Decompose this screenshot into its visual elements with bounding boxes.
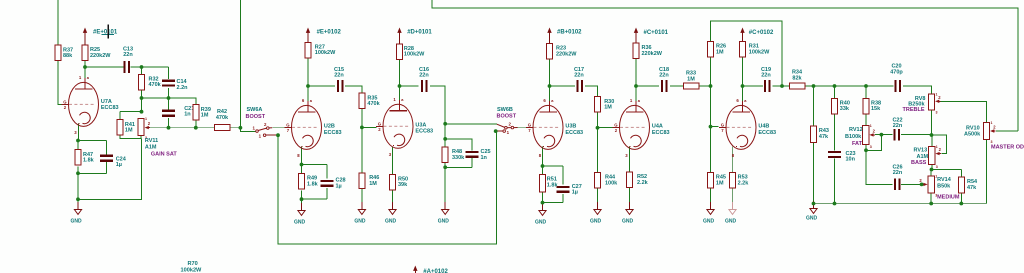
wire R54 pins — [960, 170, 962, 178]
svg-text:GND: GND — [438, 218, 450, 224]
svg-text:MEDIUM: MEDIUM — [937, 195, 960, 201]
capacitor C17 — [574, 67, 584, 92]
wire U3A plate column — [399, 60, 401, 97]
resistor R33 — [684, 71, 700, 90]
power flag #E+0102 — [306, 28, 342, 43]
wire R48/C25 bottom link — [471, 158, 473, 167]
svg-text:GND: GND — [385, 218, 397, 224]
resistor R40 — [832, 98, 850, 114]
ground GND1 — [71, 202, 83, 224]
wire U3B cathode loop — [543, 165, 564, 167]
capacitor C26 — [892, 164, 902, 190]
power flag #A+0102 — [413, 266, 448, 273]
svg-text:U4A: U4A — [652, 124, 663, 130]
svg-text:220k2W: 220k2W — [90, 53, 111, 59]
svg-text:100k2W: 100k2W — [749, 49, 770, 55]
svg-text:ECC83: ECC83 — [101, 105, 119, 111]
wire grid junction down to R44 — [597, 128, 599, 173]
svg-text:2.2k: 2.2k — [738, 180, 750, 186]
wire cathode loop bottom — [106, 162, 108, 174]
svg-text:ECC83: ECC83 — [758, 130, 776, 136]
resistor R34 — [790, 70, 806, 90]
resistor R43 — [811, 126, 830, 143]
svg-text:1.8k: 1.8k — [83, 158, 95, 164]
wire U2B cathode — [301, 147, 303, 165]
switch SW6B — [497, 107, 518, 135]
power flag #C+0101 — [634, 28, 669, 44]
wire C26 right to medium wiper node — [901, 183, 922, 185]
svg-text:1µ: 1µ — [336, 183, 342, 189]
wire plate row U2B to C15 — [308, 85, 335, 87]
svg-text:ECC83: ECC83 — [565, 130, 583, 136]
svg-text:10n: 10n — [846, 157, 856, 163]
resistor R30 — [595, 97, 615, 113]
svg-text:1M: 1M — [125, 128, 133, 134]
wire U3B cathode — [542, 147, 544, 167]
svg-text:U7A: U7A — [101, 99, 112, 105]
svg-text:1M: 1M — [687, 76, 695, 82]
svg-text:470k: 470k — [216, 115, 229, 121]
wire R33 to U4B grid node — [698, 85, 710, 87]
wire grid node down to U4B grid and R45 — [710, 86, 712, 173]
svg-text:47k: 47k — [967, 185, 977, 191]
wire R43 column — [813, 86, 815, 126]
triode U3A — [376, 95, 433, 157]
wire U2B cathode to GND — [301, 199, 303, 210]
wire U4A plate column — [635, 58, 637, 97]
svg-text:GAIN SAT: GAIN SAT — [151, 151, 178, 157]
svg-text:470p: 470p — [890, 69, 903, 75]
resistor R53 — [730, 173, 750, 189]
wire C21 bottom pin — [168, 118, 170, 128]
wire RV12 wiper to C22 node — [875, 134, 892, 136]
wire grid junction down to R46 — [361, 127, 363, 173]
svg-text:1M: 1M — [716, 180, 724, 186]
triode U3B — [526, 96, 583, 158]
resistor R36 — [633, 43, 663, 59]
bottom rail of tone stack — [814, 203, 987, 205]
svg-text:1n: 1n — [481, 155, 488, 161]
wire R26 top rail over U4B — [711, 21, 783, 86]
wire U4A cathode to R52 — [629, 147, 631, 173]
svg-text:100k2W: 100k2W — [404, 52, 425, 58]
wire C16 right to corner down to SW6B node — [430, 86, 445, 124]
capacitor C24 — [100, 155, 127, 168]
svg-text:1M: 1M — [201, 113, 209, 119]
junction SW6B loop — [494, 129, 498, 133]
wire C22 right to bass node — [901, 134, 932, 136]
wire C18 to R33 — [670, 85, 684, 87]
svg-text:22n: 22n — [893, 170, 903, 176]
resistor R26 — [708, 42, 727, 58]
ground GND8 — [622, 202, 634, 224]
svg-text:2.2k: 2.2k — [637, 180, 649, 186]
potentiometer RV11 — [138, 117, 178, 157]
wire pot bottom node down to C26 corner — [866, 150, 893, 184]
wire plate row U3B to C17 — [550, 85, 576, 87]
svg-text:1: 1 — [870, 124, 872, 128]
svg-text:#B+0102: #B+0102 — [557, 30, 582, 36]
wire RV13 bottom to RV14/R54 node — [931, 165, 933, 170]
floating text R70 — [181, 261, 203, 273]
wire R42 to SW6A junction (highlighted) — [230, 127, 241, 129]
wire C14 bottom / C21 top column — [168, 88, 170, 110]
wire R44 to GND — [597, 188, 599, 209]
svg-text:1n: 1n — [184, 112, 191, 118]
svg-text:3: 3 — [870, 145, 872, 149]
svg-text:82k: 82k — [792, 75, 802, 81]
svg-text:100k2W: 100k2W — [181, 268, 203, 273]
wire U3B plate column — [549, 58, 551, 97]
svg-text:3: 3 — [936, 111, 938, 115]
wire C23 bottom to bottom rail — [834, 158, 836, 203]
svg-text:3: 3 — [936, 165, 938, 169]
svg-text:220k2W: 220k2W — [642, 51, 663, 57]
svg-text:RV12: RV12 — [849, 127, 863, 133]
svg-text:47k: 47k — [819, 134, 829, 140]
resistor R48 — [442, 147, 465, 163]
svg-text:ECC83: ECC83 — [324, 130, 342, 136]
wire C17 right to R30 corner — [585, 86, 598, 97]
svg-text:RV14: RV14 — [937, 177, 952, 183]
wire U7A cathode — [78, 124, 80, 141]
svg-text:2.2n: 2.2n — [177, 85, 189, 91]
svg-text:#D+0101: #D+0101 — [407, 29, 432, 35]
svg-text:SW6B: SW6B — [497, 107, 513, 113]
wire input to R37 from top edge — [57, 0, 59, 45]
capacitor C27 — [557, 184, 582, 196]
wire plate row U7A: R25/plate/C13 — [84, 61, 86, 74]
svg-text:U2B: U2B — [324, 124, 335, 130]
svg-text:22n: 22n — [334, 73, 344, 79]
svg-text:1.8k: 1.8k — [307, 181, 319, 187]
wire SW6B node down to R48/C25 — [444, 124, 446, 147]
potentiometer RV13 — [911, 145, 942, 169]
ground GND5 — [385, 202, 397, 224]
svg-text:22n: 22n — [893, 123, 903, 129]
svg-text:#C+0102: #C+0102 — [749, 30, 774, 36]
potentiometer RV10 — [964, 121, 996, 144]
potentiometer RV8 — [903, 93, 942, 115]
svg-text:GND: GND — [294, 219, 306, 225]
svg-text:B50k: B50k — [937, 183, 951, 189]
boost bus loop wire SW6A-SW6B — [278, 131, 497, 244]
triode U4A — [613, 96, 670, 158]
resistor R41 — [117, 120, 135, 136]
svg-text:RV11: RV11 — [145, 138, 158, 144]
resistor R31 — [740, 42, 771, 58]
wire R38 column to RV12 — [865, 86, 867, 98]
wire R40 column to C23 — [834, 86, 836, 98]
resistor R28 — [397, 44, 426, 60]
wire RV8 wiper to RV10 top — [941, 102, 987, 123]
wire grid junction to U4A grid — [598, 126, 614, 128]
capacitor C19 — [761, 67, 771, 92]
svg-text:A1M: A1M — [917, 154, 929, 160]
capacitor C13 — [123, 47, 133, 73]
svg-text:1: 1 — [936, 93, 938, 97]
wire bass node to RV13 and wiper loop — [932, 135, 947, 154]
svg-text:22n: 22n — [659, 73, 669, 79]
resistor R37 — [55, 45, 73, 61]
svg-text:1µ: 1µ — [572, 190, 578, 196]
power flag #E+0101 — [83, 28, 118, 45]
svg-text:100k2W: 100k2W — [315, 50, 336, 56]
svg-text:B100k: B100k — [845, 134, 862, 140]
svg-text:22n: 22n — [419, 73, 429, 79]
wire U2B plate column — [307, 58, 309, 96]
svg-text:GND: GND — [590, 218, 602, 224]
wire RV14 top pin — [930, 170, 932, 177]
svg-text:FAT: FAT — [852, 141, 863, 147]
svg-text:1: 1 — [936, 145, 938, 149]
capacitor C16 — [419, 67, 429, 92]
wire R32 pins — [141, 67, 143, 75]
ground GND11 — [806, 201, 818, 222]
svg-text:GND: GND — [622, 218, 634, 224]
wire R50 to GND — [392, 190, 394, 209]
ground GND3 — [294, 203, 306, 225]
wire R46 bottom to GND — [361, 189, 363, 209]
wire boost input from top edge to SW6A junction — [239, 0, 241, 128]
wire cathode loop R47/C24 top — [78, 140, 107, 142]
svg-text:1M: 1M — [604, 105, 612, 111]
svg-text:330k: 330k — [452, 155, 465, 161]
svg-text:A500k: A500k — [964, 132, 981, 138]
svg-text:GND: GND — [725, 218, 737, 224]
wire C20 to treble pot corner — [903, 86, 931, 94]
svg-text:1M: 1M — [369, 181, 377, 187]
resistor R39 — [193, 105, 211, 121]
svg-text:GND: GND — [535, 219, 547, 225]
wire RV11/R41 top feed — [141, 98, 143, 112]
wire C13 to R32 junction and to C14 corner — [131, 66, 169, 68]
wire R48/C25 top link — [445, 139, 472, 151]
wire R41 pins — [119, 112, 121, 120]
wire RV11 wiper row to R42 (highlighted) — [150, 127, 214, 129]
capacitor C15 — [334, 67, 344, 92]
capacitor C21 — [162, 106, 194, 118]
wire R30 bottom to U4A grid junction — [597, 112, 599, 128]
wire cathode chain to GND1 — [77, 173, 79, 209]
svg-text:22n: 22n — [761, 73, 771, 79]
svg-text:GND: GND — [71, 218, 83, 224]
svg-text:MASTER OD: MASTER OD — [991, 144, 1024, 150]
resistor R50 — [390, 174, 409, 190]
resistor R54 — [958, 177, 978, 193]
power flag #B+0102 — [547, 28, 582, 44]
svg-text:470k: 470k — [367, 101, 380, 107]
wire plate row U3A to C16 — [400, 85, 419, 87]
wire R37 bottom to U7A grid — [58, 61, 62, 105]
resistor R47 — [75, 150, 95, 166]
wire R35 bottom to grid junction — [361, 109, 363, 128]
ground GND7 — [535, 203, 547, 225]
wire R45 to GND — [710, 188, 712, 209]
svg-text:SW6A: SW6A — [247, 107, 263, 113]
wire U2B cathode loop — [302, 164, 328, 166]
resistor R45 — [708, 173, 726, 189]
resistor R38 — [863, 98, 881, 114]
svg-text:1M: 1M — [716, 49, 724, 55]
resistor R52 — [627, 172, 649, 188]
wire R34 right to tone stack — [805, 85, 893, 87]
svg-text:BOOST: BOOST — [497, 114, 517, 120]
power flag #C+0102 — [740, 28, 774, 42]
wire R39 bottom pin — [195, 120, 197, 128]
capacitor C28 — [321, 178, 346, 190]
svg-text:ECC83: ECC83 — [415, 129, 433, 135]
svg-text:#C+0101: #C+0101 — [644, 30, 669, 36]
switch SW6A — [240, 107, 277, 139]
ground GND4 — [438, 202, 450, 224]
svg-text:15k: 15k — [871, 106, 881, 112]
svg-text:ECC83: ECC83 — [652, 130, 670, 136]
wire R52 to GND — [629, 188, 631, 209]
triode U7A — [62, 73, 119, 135]
svg-text:A1M: A1M — [145, 145, 157, 151]
resistor R42 — [214, 109, 230, 131]
triode U4B — [719, 96, 776, 158]
wire U4B cathode to R53 (highlighted) — [732, 147, 734, 173]
svg-text:1: 1 — [991, 121, 993, 125]
ground GND2 — [354, 202, 366, 224]
resistor R25 — [82, 45, 111, 61]
wire RV10 bottom to rail end — [986, 140, 988, 204]
wire R47 top pin — [77, 141, 79, 150]
wire SW6A to U2B grid (highlighted) — [272, 127, 286, 129]
wire C15 to R35 corner — [345, 86, 362, 93]
svg-text:RV10: RV10 — [966, 125, 980, 131]
svg-text:GND: GND — [806, 216, 818, 222]
ground GND9 — [703, 202, 715, 224]
wire RV10 wiper to master rail — [996, 130, 1018, 132]
resistor R46 — [359, 173, 379, 189]
wire plate row U4B to C19 — [743, 85, 764, 87]
svg-text:33k: 33k — [840, 106, 850, 112]
junction SW6A loop — [276, 133, 280, 137]
wire row y98: R32 bottom to C14/C21 column to R39 — [142, 98, 197, 105]
capacitor C18 — [659, 67, 669, 92]
resistor R44 — [595, 173, 619, 189]
wire top rail from top edge to master volume — [432, 0, 1018, 131]
wire RV8 bottom to bass node — [931, 110, 933, 135]
capacitor C25 — [465, 149, 490, 161]
capacitor C23 — [828, 151, 856, 163]
wire R26 bottom to grid node — [710, 57, 712, 86]
svg-text:GND: GND — [703, 218, 715, 224]
wire plate row U4A to C18 — [636, 85, 659, 87]
svg-text:22n: 22n — [123, 52, 133, 58]
resistor R51 — [540, 175, 559, 192]
svg-text:88k: 88k — [63, 53, 73, 59]
wire U4B plate column — [742, 57, 744, 97]
wire RV14 bottom to rail — [930, 193, 932, 203]
wire C19 to R34 junction — [773, 85, 790, 87]
resistor R32 — [139, 75, 162, 91]
capacitor C22 — [892, 118, 902, 141]
svg-text:1µ: 1µ — [116, 162, 122, 168]
resistor R49 — [299, 174, 319, 190]
wire SW6B node to switch — [445, 123, 497, 125]
potentiometer RV14 — [919, 175, 959, 201]
wire R53 to GND (highlighted) — [732, 188, 734, 209]
svg-text:R70: R70 — [188, 261, 198, 267]
ground GND10 — [725, 202, 737, 224]
svg-text:GND: GND — [354, 218, 366, 224]
wire RV11 bottom to ground run — [140, 135, 142, 138]
svg-text:TREBLE: TREBLE — [903, 107, 925, 113]
wire U3A cathode to R50 — [392, 147, 394, 175]
svg-text:RV13: RV13 — [914, 148, 928, 154]
capacitor C14 — [162, 79, 188, 91]
power flag #D+0101 — [397, 28, 432, 44]
resistor R35 — [359, 93, 381, 109]
svg-text:U4B: U4B — [758, 124, 769, 130]
svg-text:39k: 39k — [398, 182, 408, 188]
svg-text:1: 1 — [145, 117, 147, 121]
svg-text:#E+0102: #E+0102 — [317, 29, 342, 35]
wire R48 chain to GND — [444, 167, 446, 209]
svg-text:U3B: U3B — [565, 124, 576, 130]
resistor R27 — [305, 42, 336, 58]
wire SW6B output to U3B grid (highlighted) — [518, 127, 531, 129]
svg-text:#A+0102: #A+0102 — [423, 269, 448, 273]
svg-text:U3A: U3A — [415, 123, 426, 129]
svg-text:BASS: BASS — [911, 160, 927, 166]
svg-text:470k: 470k — [149, 82, 162, 88]
capacitor C20 — [890, 64, 903, 92]
wire wiper node down-link to pot bottom node — [866, 135, 881, 151]
svg-text:220k2W: 220k2W — [556, 51, 577, 57]
edit cursor and underline on power label — [102, 25, 114, 39]
svg-text:22n: 22n — [574, 73, 584, 79]
wire grid junction to U3A grid — [362, 126, 377, 128]
svg-text:BOOST: BOOST — [246, 114, 266, 120]
wire U3B cathode to GND — [542, 203, 544, 210]
resistor R23 — [547, 44, 578, 60]
wire RV12 bottom to wiper link node — [865, 145, 867, 151]
potentiometer RV12 — [845, 124, 876, 149]
svg-text:100k: 100k — [605, 180, 618, 186]
triode U2B — [285, 96, 342, 158]
ground GND6 — [590, 202, 602, 224]
